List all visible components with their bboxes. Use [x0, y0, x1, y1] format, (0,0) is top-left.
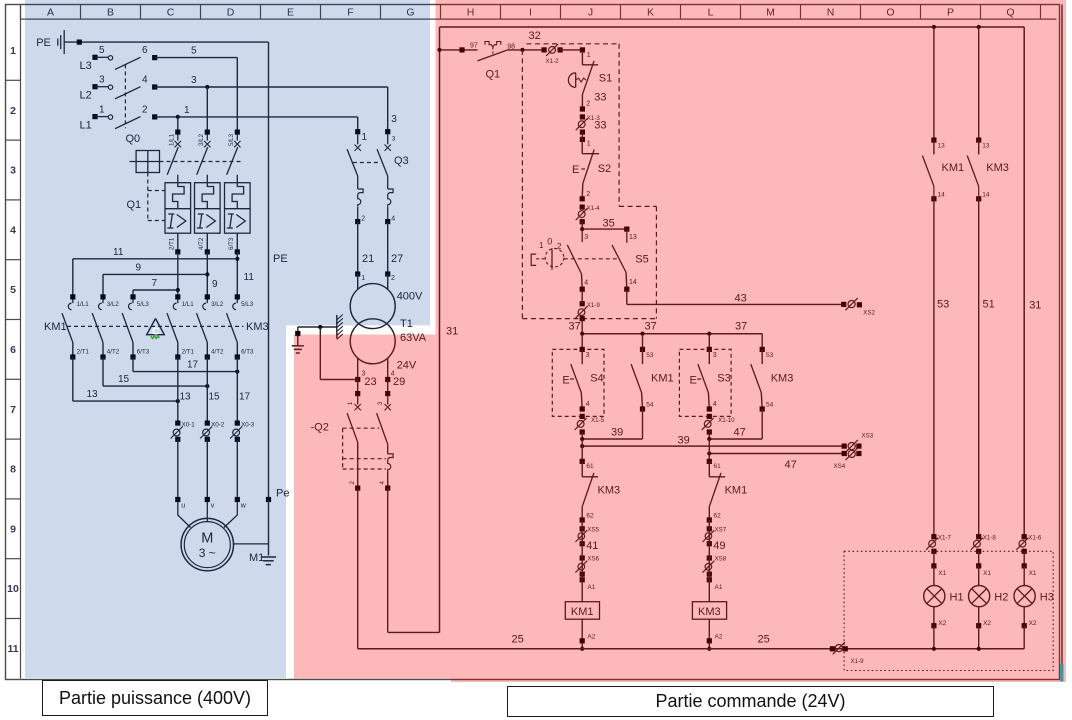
KM blade 1/L1 — [167, 313, 178, 342]
Q1 output 4/T2 — [206, 233, 208, 252]
pink control-section overlay — [294, 0, 1066, 682]
KM blade 5/L3 — [122, 313, 133, 342]
Q1 pole blade 3/L2 — [197, 147, 208, 175]
pushbutton S4 — [552, 349, 604, 416]
earth ground symbol — [292, 345, 304, 347]
KM pole 1/L1 — [70, 294, 75, 299]
Q0 blade L1 — [115, 117, 141, 129]
wire 47 link — [761, 409, 763, 439]
earth screen of transformer — [336, 315, 338, 339]
indicator lamp H2 — [969, 586, 990, 607]
terminal XS5 — [580, 526, 585, 531]
wire 5 — [155, 57, 238, 59]
rail wire 39 — [582, 445, 844, 447]
frame outer right edge — [1061, 5, 1063, 680]
KM output 4/T2 — [100, 354, 105, 359]
Q2 outputs — [355, 486, 360, 491]
indicator lamp H1 — [924, 586, 945, 607]
teal scrollbar mark bottom right — [1060, 664, 1063, 682]
motor M1 3-phase — [181, 518, 233, 570]
coil KM3 — [707, 577, 712, 582]
Q1 auxiliary contact 97-98 — [437, 48, 441, 52]
lamp branch KM1 aux 13-14 — [933, 27, 935, 140]
motor lead w — [224, 502, 237, 527]
Q1 module 1/L1 — [165, 183, 191, 234]
rail wire 47 — [709, 453, 844, 455]
terminal X1-9 bottom — [830, 646, 835, 651]
column header strip — [21, 18, 1057, 20]
Q3 pole 3 — [385, 129, 390, 134]
transformer T1 63VA — [357, 274, 359, 290]
lamps dotted enclosure — [844, 551, 1053, 670]
terminal XS7 — [707, 526, 712, 531]
aux contact KM3 — [760, 347, 765, 352]
indicator lamp H3 — [1014, 586, 1035, 607]
KM output 4/T2 — [205, 354, 210, 359]
wire 7 tap — [177, 252, 179, 297]
interlock contact KM1 — [708, 439, 710, 461]
Q1 module 3/L2 — [195, 183, 221, 234]
wire 39 link — [642, 409, 644, 439]
PE earth symbol top-left — [57, 39, 59, 46]
KM pole 3/L2 — [100, 294, 105, 299]
terminal X1-5 — [580, 414, 585, 419]
svg-text:8: 8 — [10, 464, 16, 476]
branch S4 / KM1 to coil KM1 — [581, 334, 583, 350]
wire 13 — [72, 357, 74, 401]
label box Partie puissance (400V) — [42, 680, 268, 716]
bottom rail wire 25 — [358, 648, 1024, 650]
Q2 blade right — [377, 413, 388, 444]
motor feed verticals — [177, 357, 179, 423]
terminal X1-9 upper — [580, 301, 585, 306]
terminal XS4 — [842, 451, 847, 456]
Q3 pole 1 — [355, 129, 360, 134]
coil KM1 — [580, 577, 585, 582]
branch S3 / KM3 to coil KM3 — [708, 334, 710, 350]
terminal XS8 — [707, 555, 712, 560]
terminal X1 of H3 — [1022, 563, 1027, 568]
wire 3 — [155, 86, 388, 88]
lamp branch KM3 aux 13-14 — [978, 27, 980, 140]
secondary neutral link — [319, 327, 321, 380]
wire 15 — [102, 357, 104, 386]
Q1 pole 1/L1 — [175, 130, 180, 135]
wires to motor U V W — [177, 439, 179, 499]
stop button S2 — [581, 132, 583, 139]
KM pole 5/L3 — [130, 294, 135, 299]
svg-text:11: 11 — [7, 643, 18, 655]
blue power-section overlay — [25, 0, 430, 678]
top supply rail — [440, 26, 1025, 28]
wire 9 tap — [206, 252, 208, 297]
Q1 aux trip symbol — [485, 42, 501, 47]
terminal X1-10 — [707, 414, 712, 419]
KM pole 3/L2 — [205, 294, 210, 299]
KM blade 3/L2 — [197, 313, 208, 342]
Q0 blade L3 — [115, 57, 141, 69]
KM output 2/T1 — [70, 354, 75, 359]
terminal X2 of H2 — [976, 623, 981, 628]
terminal X1-8 — [976, 534, 981, 539]
delta symbol — [147, 319, 165, 335]
emergency stop S1 — [581, 50, 583, 65]
KM blade 3/L2 — [92, 313, 103, 342]
wire 25 from Q2 to bottom rail — [357, 488, 359, 649]
wire 35 — [582, 228, 627, 230]
terminal X1-2 — [549, 47, 556, 54]
pushbutton S3 — [679, 349, 731, 416]
svg-text:7: 7 — [10, 404, 16, 416]
Q3 linkage dashed — [353, 162, 380, 164]
terminal X1-7 — [931, 534, 936, 539]
svg-text:6: 6 — [10, 344, 16, 356]
Q1 module 5/L3 — [225, 183, 251, 234]
terminal X0-2 — [205, 421, 210, 426]
wire PE vertical — [268, 42, 270, 499]
terminal X0-3 — [235, 421, 240, 426]
KM output 6/T3 — [130, 354, 135, 359]
svg-text:9: 9 — [10, 523, 16, 535]
Q1 aux blade — [477, 50, 507, 61]
KM output 6/T3 — [235, 354, 240, 359]
earth wire — [298, 326, 337, 328]
terminal X1-4 — [580, 205, 585, 210]
Q2 blade left — [347, 413, 358, 442]
wire 43 — [626, 289, 628, 304]
KM output 2/T1 — [175, 354, 180, 359]
terminal XS2 — [841, 302, 846, 307]
Q1 linkage dashed lines — [160, 161, 242, 163]
terminal X1-3 — [580, 114, 585, 119]
rail wire 37 — [582, 333, 762, 335]
Q1 output 6/T3 — [236, 233, 238, 252]
svg-text:3: 3 — [10, 165, 16, 177]
wire 21 — [357, 222, 359, 274]
svg-text:5: 5 — [10, 284, 16, 296]
interlock contact KM3 — [581, 439, 583, 461]
Q0 blade L2 — [115, 87, 141, 99]
Q0 operator handle box — [136, 151, 159, 173]
terminal X2 of H1 — [931, 623, 936, 628]
KM blade 1/L1 — [62, 313, 73, 342]
KM linkage dashed — [67, 325, 244, 327]
terminal X2 of H3 — [1022, 623, 1027, 628]
terminal X1 of H2 — [976, 563, 981, 568]
Q2 linkage dashed box — [342, 428, 344, 469]
wire PE top — [64, 41, 268, 43]
wire 31 from Q2 up right side — [387, 488, 389, 632]
motor lead v — [206, 502, 208, 521]
Q1 output 2/T1 — [177, 233, 179, 252]
svg-text:1: 1 — [10, 45, 16, 57]
terminal XS6 — [580, 555, 585, 560]
wire 11 tap — [236, 252, 238, 297]
earth ground at motor — [261, 556, 276, 558]
terminal X1 of H1 — [931, 563, 936, 568]
KM blade 5/L3 — [227, 313, 238, 342]
S5 linkage dashed — [564, 258, 619, 260]
KM pole 1/L1 — [175, 294, 180, 299]
terminal X1-6 — [1022, 534, 1027, 539]
svg-text:10: 10 — [7, 583, 19, 595]
Pe connection at motor — [266, 497, 271, 502]
green squiggle artifact — [151, 336, 160, 338]
KM pole 5/L3 — [235, 294, 240, 299]
motor lead u — [178, 502, 191, 527]
right rail wire 31 — [1023, 27, 1025, 537]
secondary wires — [357, 358, 359, 379]
left supply rail wire 31 — [439, 27, 441, 632]
Q0 linkage dashed — [124, 64, 126, 128]
S5 left contact blade — [567, 245, 581, 274]
Q1 pole blade 5/L3 — [227, 147, 238, 175]
terminal XS3 — [842, 444, 847, 449]
terminal X0-1 — [175, 421, 180, 426]
wire 27 — [387, 222, 389, 274]
S5 latch bracket — [531, 254, 536, 265]
label box Partie commande (24V) — [507, 686, 994, 717]
wire 17 — [132, 357, 134, 372]
wire 1 — [155, 116, 358, 118]
svg-text:4: 4 — [10, 224, 16, 236]
Q1 pole blade 1/L1 — [167, 147, 178, 175]
Q1 pole 5/L3 — [235, 130, 240, 135]
Q1 pole 3/L2 — [205, 130, 210, 135]
aux contact KM1 — [640, 347, 645, 352]
svg-text:2: 2 — [10, 105, 16, 117]
door switch dashed enclosure — [521, 50, 523, 319]
